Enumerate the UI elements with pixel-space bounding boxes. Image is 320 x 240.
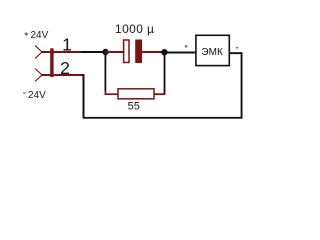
resistor R1 55: body [118, 89, 154, 99]
wire pin2 (maroon segment from connector) [41, 74, 82, 76]
label + 24V : plus sign [24, 32, 28, 36]
node B junction dot [161, 49, 167, 55]
wire EMK box to right corner (black) [230, 52, 243, 54]
wire right side down (black) [241, 52, 243, 118]
node A junction dot [102, 49, 108, 55]
capacitor C1 1000u: left plate [124, 40, 129, 63]
svg-text:ЭМК: ЭМК [201, 47, 223, 58]
connector (24V input plug) [35, 46, 54, 82]
svg-text:24V: 24V [28, 90, 46, 101]
bottom rail wire (black) [83, 117, 243, 119]
polarity + label at EMK [185, 45, 188, 48]
svg-text:55: 55 [128, 101, 140, 113]
wire pin1 to node A (black segment) [81, 51, 106, 53]
wire pin2 corner to bottom rail (black) [82, 75, 84, 118]
wire node B to EMK box (black) [166, 52, 196, 54]
resistor R1 lead right (maroon) [154, 93, 165, 95]
svg-text:1000 µ: 1000 µ [115, 22, 154, 36]
load EMK box [196, 35, 229, 65]
svg-text:24V: 24V [31, 30, 49, 41]
capacitor C1 1000u: right plate (filled) [135, 40, 142, 64]
capacitor C1 lead right (maroon) [142, 51, 164, 53]
label - 24V : minus sign [23, 92, 25, 94]
resistor R1 lead left (maroon) [105, 91, 118, 95]
polarity - label at EMK [236, 47, 239, 49]
wire pin1 (maroon segment from connector) [41, 51, 82, 53]
capacitor C1 lead left (maroon) [106, 51, 124, 53]
wire node A down (black) [105, 52, 107, 91]
wire node B down (black) [164, 52, 166, 94]
